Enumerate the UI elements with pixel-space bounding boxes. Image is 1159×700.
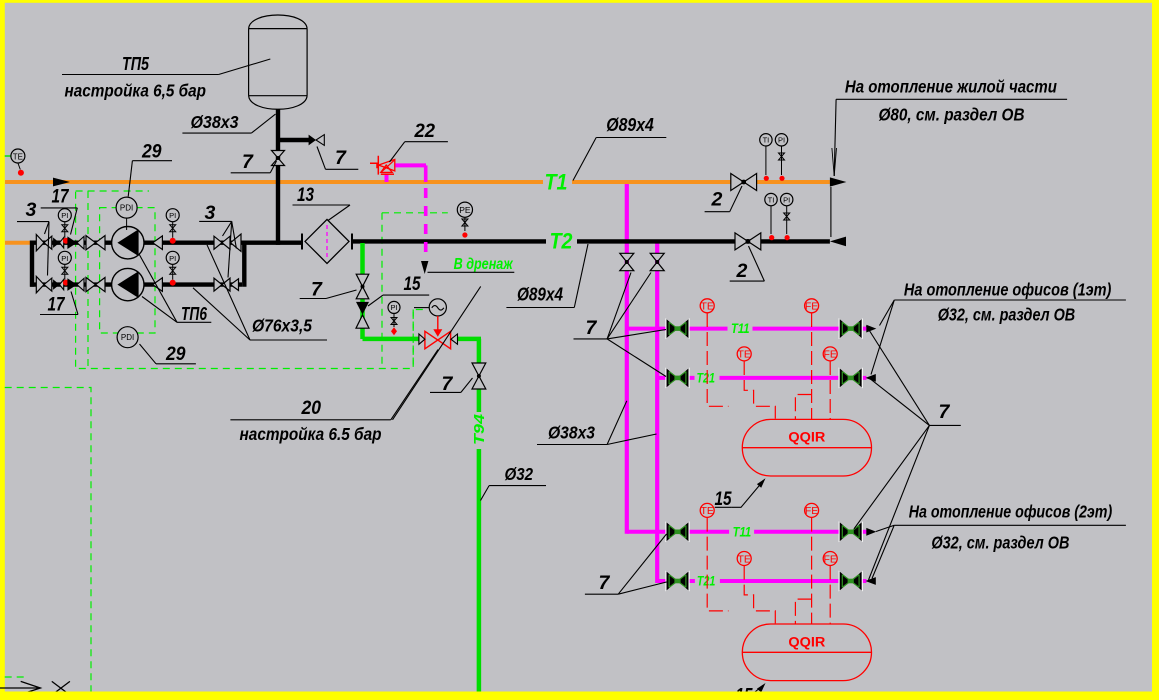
check valve bottom xyxy=(67,278,77,291)
branch Т11 (1) xyxy=(627,327,728,331)
svg-text:PI: PI xyxy=(61,211,68,220)
svg-text:В дренаж: В дренаж xyxy=(454,256,514,273)
check valve top xyxy=(67,236,77,249)
sensor ТЕ supply (1) xyxy=(700,299,714,313)
boundary dashed lower-left xyxy=(5,388,91,693)
svg-text:20: 20 xyxy=(301,397,322,419)
svg-text:Ø80, см. раздел ОВ: Ø80, см. раздел ОВ xyxy=(879,105,1025,125)
pipe T2 return xyxy=(352,239,546,243)
pipe T1 inlet stub lower xyxy=(5,241,33,245)
gauge PI drain xyxy=(393,314,395,328)
valve top branch inlet xyxy=(36,235,44,251)
flow arrow on T1 xyxy=(53,178,70,187)
svg-text:настройка 6.5 бар: настройка 6.5 бар xyxy=(240,424,382,444)
svg-text:PI: PI xyxy=(778,136,785,145)
svg-text:17: 17 xyxy=(48,294,66,316)
riser 1 magenta xyxy=(625,182,629,534)
svg-text:Т11: Т11 xyxy=(731,321,750,336)
svg-text:Ø32, см. раздел ОВ: Ø32, см. раздел ОВ xyxy=(938,305,1075,325)
svg-text:Т21: Т21 xyxy=(697,574,716,589)
drain arrow xyxy=(421,261,428,274)
leader to T1 T2 outlet xyxy=(834,99,836,176)
svg-text:Ø89х4: Ø89х4 xyxy=(606,115,654,135)
svg-text:7: 7 xyxy=(586,317,598,339)
balancing valve Т11 (1) left xyxy=(665,318,677,339)
arrow T1 outlet xyxy=(830,177,847,186)
gauge PI xyxy=(64,264,66,279)
branch Т11 (2) xyxy=(627,530,729,534)
svg-text:TI: TI xyxy=(768,195,775,204)
svg-text:7: 7 xyxy=(939,401,951,423)
svg-text:17: 17 xyxy=(52,186,70,208)
boundary dashed box drain unit xyxy=(382,213,448,369)
svg-text:Т2: Т2 xyxy=(550,229,574,254)
svg-text:ТЕ: ТЕ xyxy=(700,505,713,517)
svg-text:7: 7 xyxy=(335,147,347,169)
heat meter QQIR (1) xyxy=(742,419,871,476)
pump header pipes xyxy=(30,241,34,287)
svg-text:Ø32, см. раздел ОВ: Ø32, см. раздел ОВ xyxy=(931,533,1069,553)
riser 2 magenta xyxy=(655,241,659,583)
svg-text:PE: PE xyxy=(459,205,471,215)
reducer right of control valve xyxy=(451,334,458,344)
valve before pump bottom xyxy=(86,278,96,292)
svg-text:FE: FE xyxy=(823,349,836,361)
arrow Т11 (1) xyxy=(866,325,876,333)
svg-text:2: 2 xyxy=(736,260,748,282)
check valve small top xyxy=(53,238,59,248)
balancing valve Т21 (1) left xyxy=(665,367,677,388)
svg-text:FE: FE xyxy=(805,301,818,313)
pressure tap dot bottom xyxy=(63,280,69,286)
svg-text:13: 13 xyxy=(297,184,314,206)
svg-text:PI: PI xyxy=(390,303,397,312)
svg-text:ТЕ: ТЕ xyxy=(737,553,750,565)
valve riser 1 xyxy=(620,253,634,262)
svg-text:7: 7 xyxy=(242,151,254,173)
svg-text:PDI: PDI xyxy=(120,204,133,213)
svg-text:22: 22 xyxy=(414,120,436,142)
svg-text:QQIR: QQIR xyxy=(788,430,825,445)
balancing valve Т11 (1) right xyxy=(839,318,851,339)
valve on tank pipe xyxy=(272,151,285,159)
svg-text:FE: FE xyxy=(805,505,818,517)
branch Т21 (1) xyxy=(657,376,694,380)
svg-text:PI: PI xyxy=(169,211,176,220)
sensor ТЕ return (1) xyxy=(737,347,751,361)
svg-text:PI: PI xyxy=(61,254,68,263)
sensor FE supply (2) xyxy=(805,503,819,517)
reference arrow bottom-left xyxy=(0,687,40,689)
svg-text:Ø76х3,5: Ø76х3,5 xyxy=(252,316,312,336)
control valve 20 xyxy=(437,316,439,330)
arrow Т11 (2) xyxy=(866,528,876,536)
valve before pump top xyxy=(86,236,96,250)
signal lines heat meter (1) xyxy=(707,313,728,406)
reducer after pump bottom xyxy=(144,284,153,286)
signal lines heat meter (2) xyxy=(707,518,728,611)
sensor ТЕ supply (2) xyxy=(700,503,714,517)
reducer after pump top xyxy=(144,242,153,244)
branch Т21 (2) xyxy=(657,579,695,583)
svg-text:PI: PI xyxy=(169,254,176,263)
svg-text:Ø89х4: Ø89х4 xyxy=(517,285,563,305)
sensor FE return (2) xyxy=(823,552,837,566)
balancing valve Т21 (1) right xyxy=(839,367,851,388)
gauge PDI lower xyxy=(117,327,138,348)
gauge PE xyxy=(464,216,466,231)
svg-text:ТЕ: ТЕ xyxy=(13,152,23,161)
check valve small bottom xyxy=(53,279,59,289)
boundary dashed box pumps inner xyxy=(100,208,155,333)
actuator motor xyxy=(429,299,446,316)
valve riser 2 xyxy=(650,253,664,262)
arrow Т21 (2) xyxy=(865,577,875,585)
svg-text:29: 29 xyxy=(141,141,162,163)
gauge PI xyxy=(64,222,66,238)
svg-text:настройка 6,5 бар: настройка 6,5 бар xyxy=(65,81,207,101)
sensor ТЕ inlet xyxy=(5,155,11,157)
svg-text:На отопление офисов (2эт): На отопление офисов (2эт) xyxy=(909,502,1113,522)
svg-text:15: 15 xyxy=(404,273,422,295)
svg-text:15: 15 xyxy=(715,488,733,510)
gauge PI xyxy=(172,222,174,238)
valve outlet top xyxy=(214,236,222,249)
pump ТП6 bottom xyxy=(112,268,144,300)
balancing valve Т21 (2) right xyxy=(839,571,851,592)
pipe T1 supply xyxy=(5,180,543,184)
svg-text:Ø38х3: Ø38х3 xyxy=(548,423,595,443)
sensor ТЕ return (2) xyxy=(737,552,751,566)
svg-text:Т1: Т1 xyxy=(545,170,568,195)
svg-text:PI: PI xyxy=(783,195,790,204)
svg-text:Ø32: Ø32 xyxy=(505,464,534,484)
svg-text:На отопление офисов (1эт): На отопление офисов (1эт) xyxy=(904,280,1112,300)
pressure tap dot 2 top xyxy=(170,238,176,244)
valve 2 on T1 xyxy=(731,174,744,191)
reducer left of control valve xyxy=(419,334,425,344)
arrow Т21 (1) xyxy=(865,374,875,382)
pressure tap dot 2 bottom xyxy=(170,280,176,286)
sensor FE return (1) xyxy=(823,347,837,361)
gauge PDI upper xyxy=(126,218,128,230)
valve bottom branch inlet xyxy=(36,276,44,292)
svg-text:PDI: PDI xyxy=(121,333,134,342)
svg-text:ТЕ: ТЕ xyxy=(700,301,713,313)
drain pipe magenta xyxy=(395,163,426,167)
svg-text:Т11: Т11 xyxy=(733,524,752,539)
svg-text:7: 7 xyxy=(311,279,323,301)
svg-text:ТП5: ТП5 xyxy=(122,54,150,74)
reducer outlet top xyxy=(231,234,242,251)
arrow T2 return xyxy=(830,237,846,247)
gauges TI PI at T1 xyxy=(765,146,767,175)
svg-text:На отопление жилой части: На отопление жилой части xyxy=(845,77,1057,97)
expansion tank ТП5 xyxy=(249,29,308,96)
svg-text:ТП6: ТП6 xyxy=(181,304,208,324)
svg-text:7: 7 xyxy=(442,373,454,395)
balancing valve Т11 (2) right xyxy=(839,521,851,542)
gauge PI xyxy=(172,264,174,279)
svg-text:FE: FE xyxy=(823,553,836,565)
balancing valve Т11 (2) left xyxy=(665,521,677,542)
heat meter QQIR (2) xyxy=(742,624,871,681)
border bottom overlay xyxy=(0,692,1159,700)
valve 2 on T2 xyxy=(735,233,748,250)
boundary dashed box pump unit outer xyxy=(76,192,427,369)
valve on Т94 riser xyxy=(472,363,486,376)
pressure tap dot top xyxy=(63,238,69,244)
pump ТП6 top xyxy=(112,227,144,259)
gauges TI PI at T2 xyxy=(770,206,772,234)
valve outlet bottom xyxy=(214,278,222,291)
balancing valve Т21 (2) left xyxy=(665,571,677,592)
check valve drain xyxy=(356,302,369,315)
svg-text:Т94: Т94 xyxy=(471,413,488,445)
valve tank side branch xyxy=(309,135,316,146)
svg-text:ТЕ: ТЕ xyxy=(737,349,750,361)
border frame xyxy=(0,0,1159,3)
svg-text:2: 2 xyxy=(711,189,723,211)
break mark X xyxy=(52,681,70,695)
svg-text:3: 3 xyxy=(26,199,37,221)
sensor FE supply (1) xyxy=(805,299,819,313)
svg-text:TI: TI xyxy=(763,136,770,145)
reducer outlet bottom xyxy=(231,279,239,291)
svg-text:Ø38х3: Ø38х3 xyxy=(191,112,239,132)
safety valve 22 xyxy=(385,174,389,182)
svg-text:QQIR: QQIR xyxy=(788,634,825,649)
svg-text:29: 29 xyxy=(165,343,186,365)
filter 13 xyxy=(305,219,349,263)
expansion tank pipe xyxy=(276,108,280,245)
valve on drain xyxy=(356,274,369,286)
pipe drain green xyxy=(360,243,365,275)
svg-text:7: 7 xyxy=(599,572,611,594)
svg-text:Т21: Т21 xyxy=(697,370,716,385)
leaders from 20 to control valve xyxy=(391,350,438,420)
svg-text:3: 3 xyxy=(205,202,216,224)
